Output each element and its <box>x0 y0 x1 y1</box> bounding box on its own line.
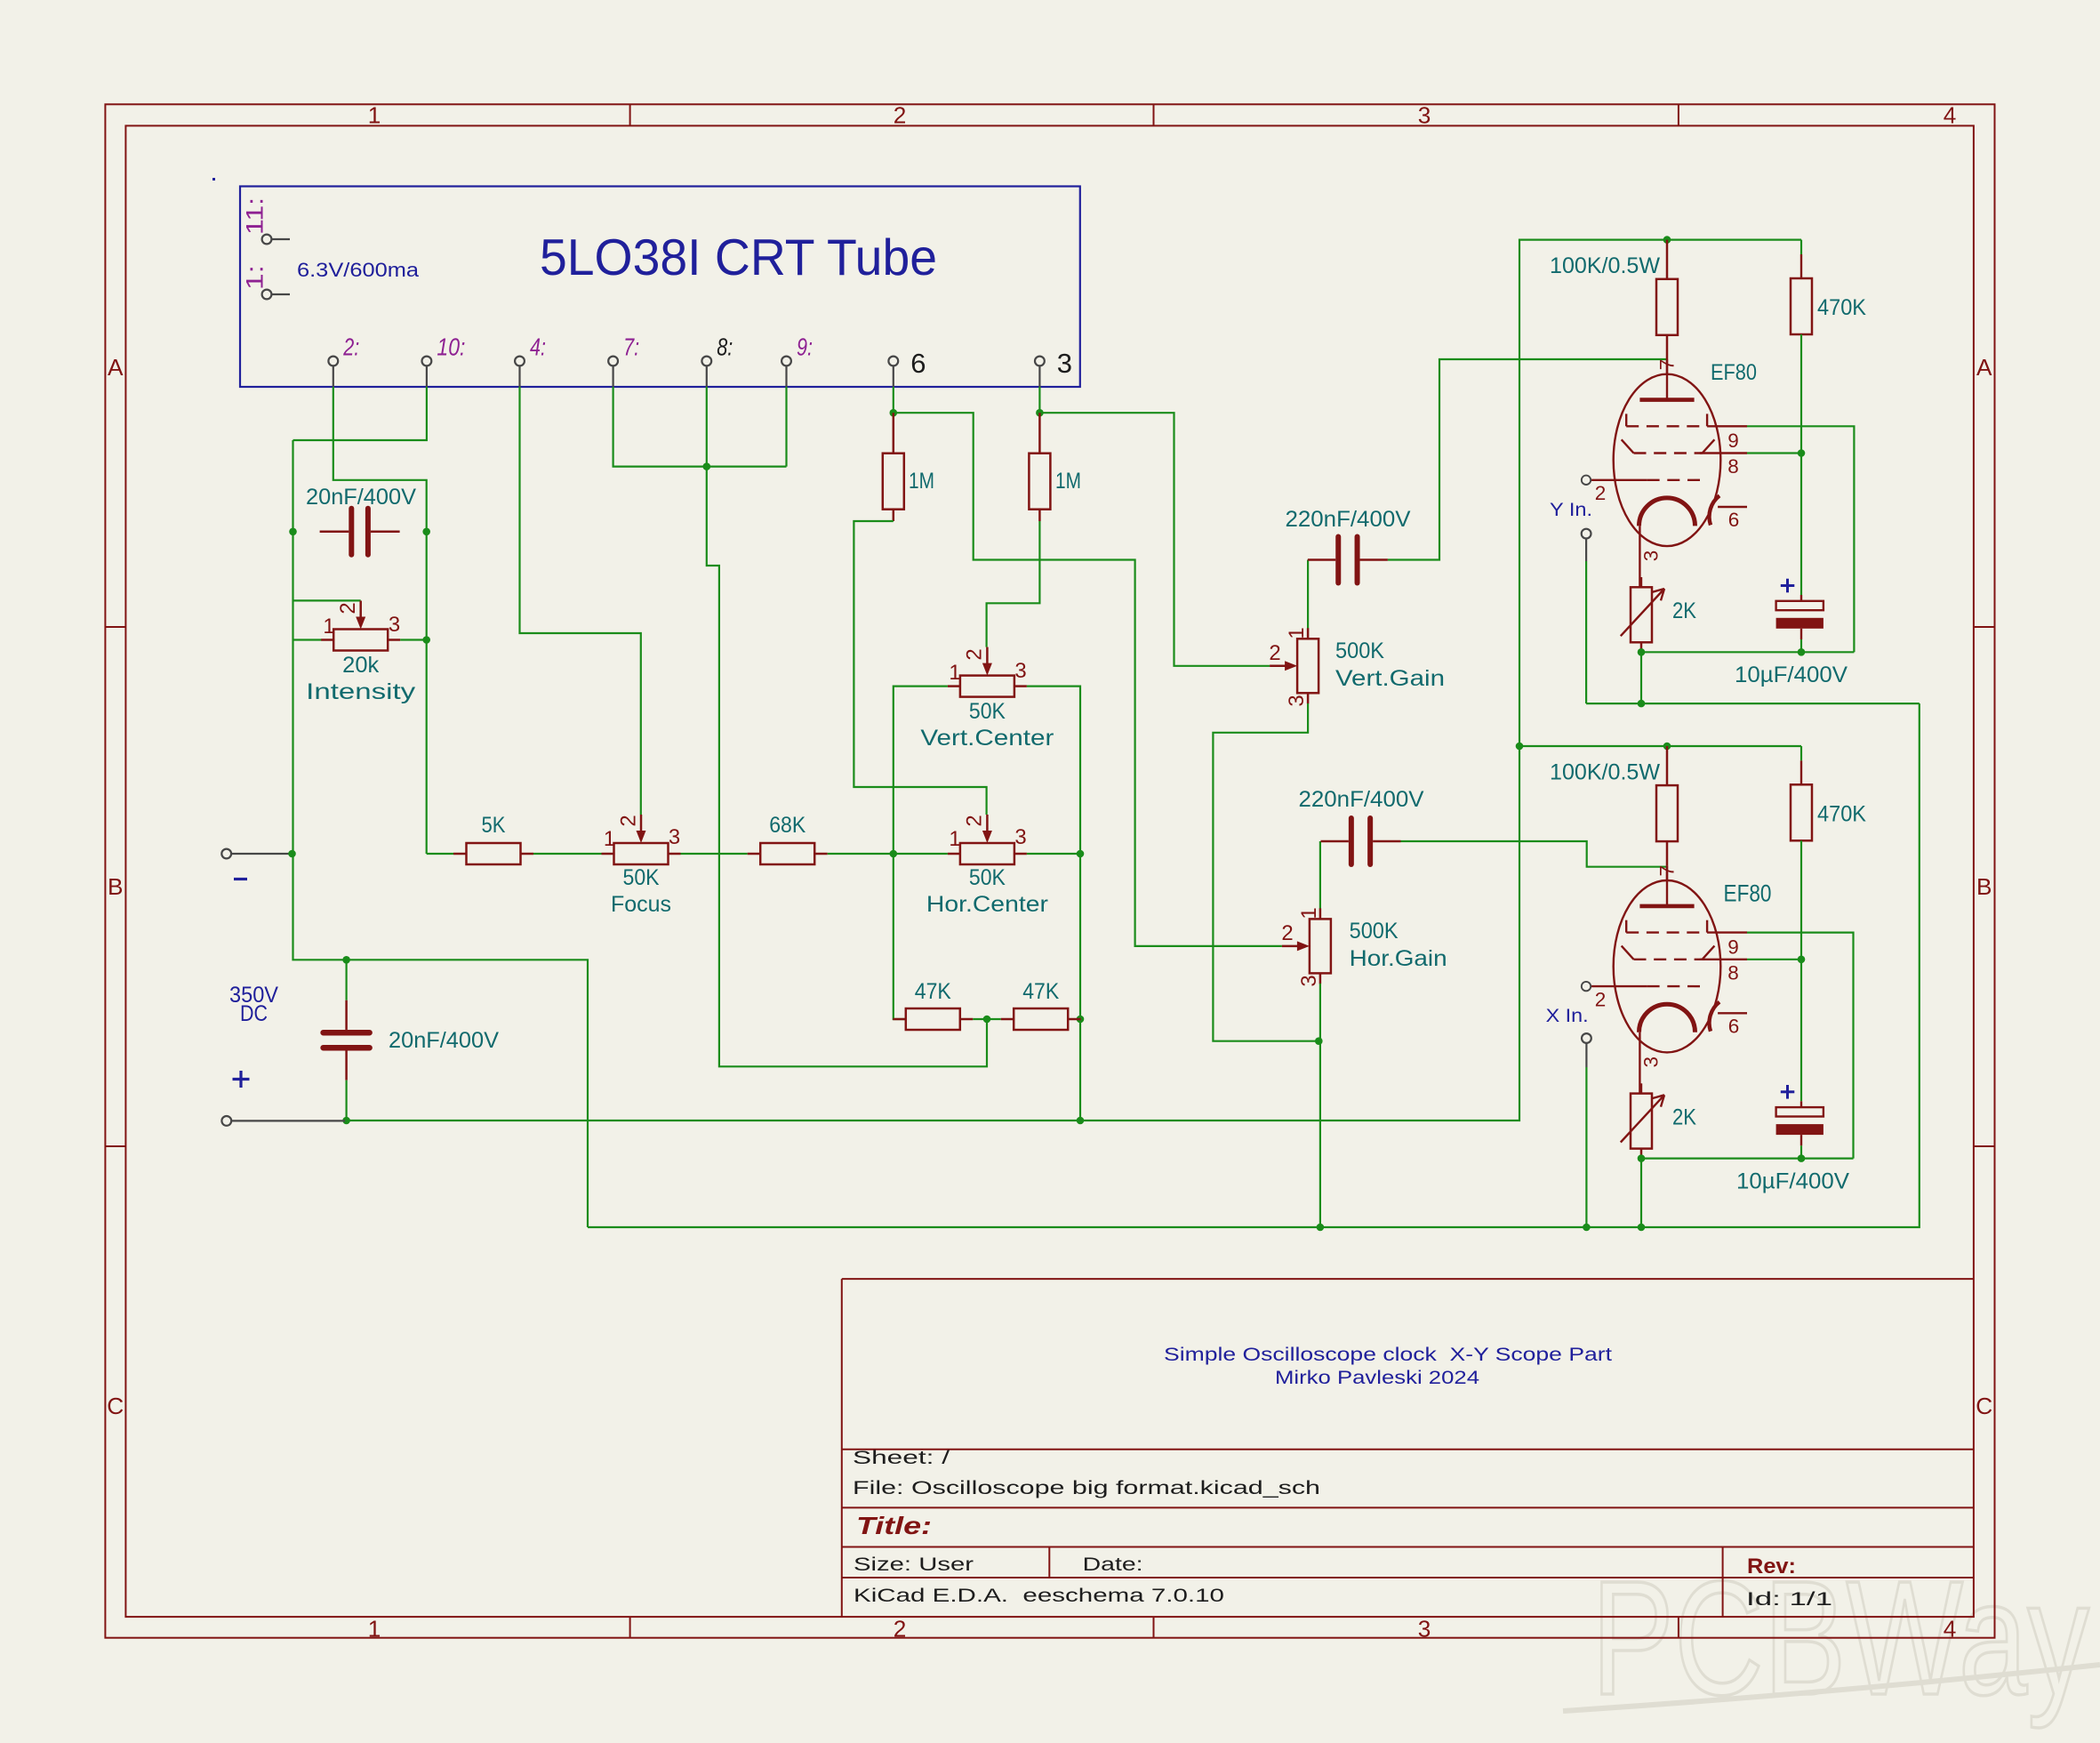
resistor R3 5K <box>453 843 533 864</box>
wire R9 bottom pin7 lead <box>1666 865 1668 880</box>
junction minus node <box>288 850 296 858</box>
V1 pin7 number <box>1656 359 1679 371</box>
svg-text:8:: 8: <box>717 333 733 361</box>
junction Y bias node <box>1638 700 1646 708</box>
RV7 top lead from tube pin3 <box>1640 577 1642 587</box>
border ruler labels 1-4 A-C <box>107 102 1992 1643</box>
svg-text:8: 8 <box>1727 961 1739 984</box>
junction X rail left <box>1516 743 1524 751</box>
RV7 value 2K <box>1672 599 1697 623</box>
svg-text:1: 1 <box>1285 627 1309 639</box>
V1 label EF80 <box>1711 361 1757 385</box>
svg-text:EF80: EF80 <box>1711 361 1757 385</box>
svg-text:Size: User: Size: User <box>854 1554 974 1575</box>
svg-text:KiCad E.D.A. eeschema 7.0.10: KiCad E.D.A. eeschema 7.0.10 <box>854 1586 1224 1606</box>
wire C2 bottom stub <box>346 1080 348 1120</box>
RV6 pin1 number <box>1297 907 1321 919</box>
X In terminal <box>1582 1033 1591 1067</box>
svg-text:1: 1 <box>604 827 615 851</box>
svg-text:2: 2 <box>894 102 907 129</box>
R5 value 47K <box>915 980 952 1004</box>
svg-text:10:: 10: <box>437 333 465 361</box>
date text <box>1083 1554 1143 1575</box>
label minus sign <box>234 878 247 880</box>
label Y In. <box>1550 500 1592 520</box>
capacitor C1 20nF/400V <box>320 509 400 555</box>
wire cap4 left net <box>1319 841 1321 909</box>
RV3 value 50K <box>623 866 661 890</box>
svg-text:50K: 50K <box>969 866 1006 890</box>
svg-text:1: 1 <box>949 661 960 685</box>
wire horgain pin3 net <box>1319 984 1321 1227</box>
wire X cathode rail <box>1641 1157 1854 1159</box>
svg-text:2: 2 <box>894 1616 907 1643</box>
svg-text:20nF/400V: 20nF/400V <box>389 1029 500 1053</box>
svg-text:Sheet: /: Sheet: / <box>853 1448 950 1468</box>
CRT pin 7 name <box>623 333 639 361</box>
svg-text:3: 3 <box>1285 695 1309 706</box>
comment text Mirko Pavleski 2024 <box>1275 1368 1479 1388</box>
svg-text:100K/0.5W: 100K/0.5W <box>1550 254 1661 278</box>
RV1 pin2 number <box>336 602 360 614</box>
wire minus terminal <box>221 849 291 859</box>
svg-text:X In.: X In. <box>1546 1006 1589 1026</box>
svg-text:470K: 470K <box>1817 296 1867 320</box>
RV3 pin1 number <box>604 827 615 851</box>
RV3 pin2 number <box>617 815 641 826</box>
svg-text:7:: 7: <box>623 333 639 361</box>
wire vertcenter pin3 net <box>1027 687 1080 1120</box>
CRT pin 2 <box>328 357 338 387</box>
RV5 value 500K <box>1335 639 1385 663</box>
potentiometer RV3 50K Focus <box>602 815 681 864</box>
C1 value 20nF/400V <box>306 486 417 510</box>
R1 value 1M <box>909 470 934 494</box>
C4 value 220nF/400V <box>1299 788 1425 812</box>
svg-text:Date:: Date: <box>1083 1554 1143 1575</box>
CRT pin 9 <box>781 357 791 387</box>
RV8 value 2K <box>1672 1105 1697 1129</box>
junction 47K middle node <box>983 1016 991 1024</box>
C6 plus sign <box>1781 1085 1795 1099</box>
junction intensity pin3 <box>422 636 430 644</box>
wire R2 bottom to vertcenter pin2 <box>987 521 1040 647</box>
svg-text:DC: DC <box>240 1001 268 1026</box>
capacitor C3 220nF/400V <box>1308 537 1388 583</box>
svg-text:470K: 470K <box>1817 802 1867 826</box>
C3 value 220nF/400V <box>1286 508 1412 532</box>
svg-text:4:: 4: <box>530 333 546 361</box>
junction pin7-8-9 node <box>703 462 711 470</box>
Y In terminal <box>1582 529 1591 561</box>
wire pin6 down <box>893 387 894 413</box>
svg-text:4: 4 <box>1944 1616 1957 1643</box>
V1 pin3 number <box>1640 550 1663 562</box>
PCBWay watermark <box>1563 1546 2100 1729</box>
svg-text:1: 1 <box>368 102 381 129</box>
junction cap1 right <box>422 528 430 536</box>
kicad version text <box>854 1586 1224 1606</box>
wire pin9 down <box>785 387 787 467</box>
wire Y In drop <box>1585 561 1587 703</box>
wire pin6 to horgain pin2 <box>894 413 1282 946</box>
RV2 pin2 number <box>963 648 987 660</box>
R7 value 100K/0.5W <box>1550 254 1661 278</box>
wire V2 pin9 net <box>1747 933 1854 1159</box>
id text <box>1746 1589 1832 1610</box>
svg-text:20nF/400V: 20nF/400V <box>306 486 417 510</box>
wire 5K to focus <box>533 853 602 855</box>
wire R10 to C6 net <box>1800 840 1802 1101</box>
CRT block title 5LO38I CRT Tube <box>540 229 937 286</box>
junction horgain ground node <box>1317 1224 1325 1232</box>
wire Y In bias rail <box>1586 703 1920 704</box>
RV3 pin3 number <box>669 825 680 849</box>
resistor R9 100K/0.5W <box>1656 746 1678 865</box>
CRT pin 11 name <box>242 197 269 235</box>
C2 value 20nF/400V <box>389 1029 500 1053</box>
svg-text:9:: 9: <box>797 333 813 361</box>
svg-text:A: A <box>108 354 124 381</box>
wire plus rail <box>347 240 1801 1120</box>
svg-text:Rev:: Rev: <box>1747 1554 1796 1578</box>
wire C2 top stub <box>346 960 348 1000</box>
wire pin7 down <box>613 387 787 467</box>
svg-text:1:: 1: <box>242 265 269 290</box>
rev label <box>1747 1554 1796 1578</box>
V2 pin8 number <box>1727 961 1739 984</box>
V2 pin6 number <box>1728 1015 1740 1037</box>
RV6 pin3 number <box>1297 975 1321 986</box>
svg-text:3: 3 <box>1418 1616 1431 1643</box>
wire RV8 to ground rail <box>1640 1159 1642 1227</box>
junction horcenter pin3 node <box>1077 850 1085 858</box>
svg-text:Vert.Center: Vert.Center <box>920 727 1054 751</box>
svg-text:Hor.Center: Hor.Center <box>926 893 1048 917</box>
junction X In ground node <box>1583 1224 1591 1232</box>
wire R1 bottom to horcenter pin2 <box>854 521 986 815</box>
wire V2 pin8 net <box>1747 959 1801 960</box>
svg-text:1: 1 <box>368 1616 381 1643</box>
C6 value 10uF/400V <box>1736 1169 1850 1193</box>
junction vertcenter net mid <box>1077 1016 1085 1024</box>
svg-text:3: 3 <box>669 825 680 849</box>
sheet text <box>853 1448 950 1468</box>
capacitor C5 10uF/400V <box>1776 595 1823 652</box>
resistor R10 470K <box>1791 784 1812 840</box>
RV6 label Hor.Gain <box>1350 947 1447 971</box>
RV1 label Intensity <box>306 680 416 704</box>
wire pin10 to left net <box>293 387 427 440</box>
svg-text:3: 3 <box>1014 825 1026 849</box>
svg-text:2K: 2K <box>1672 599 1697 623</box>
file text <box>853 1478 1320 1498</box>
svg-text:10µF/400V: 10µF/400V <box>1735 663 1848 687</box>
RV6 pin2 number <box>1281 921 1293 945</box>
potentiometer RV5 500K Vert.Gain <box>1270 628 1319 703</box>
capacitor C2 20nF/400V <box>324 1000 370 1080</box>
wire vertgain pin3 net <box>1213 703 1319 1041</box>
svg-text:2: 2 <box>963 815 987 826</box>
title label <box>856 1511 932 1539</box>
CRT pin 1 name <box>242 265 269 290</box>
svg-text:Vert.Gain: Vert.Gain <box>1335 667 1445 691</box>
RV2 value 50K <box>969 700 1006 724</box>
svg-text:2: 2 <box>1281 921 1293 945</box>
wire pin3 down <box>1038 387 1040 413</box>
svg-text:6: 6 <box>910 348 926 379</box>
svg-text:3: 3 <box>1297 975 1321 986</box>
potentiometer RV6 500K Hor.Gain <box>1282 908 1331 984</box>
svg-text:3: 3 <box>1640 1056 1663 1068</box>
label 6.3V/600ma <box>297 259 420 281</box>
junction Y rail 100K <box>1663 236 1671 244</box>
R9 value 100K/0.5W <box>1550 760 1661 784</box>
wire focus pin3 to 68K <box>681 853 748 855</box>
CRT block body rectangle <box>240 187 1080 388</box>
svg-text:500K: 500K <box>1335 639 1385 663</box>
R2 value 1M <box>1055 470 1081 494</box>
svg-text:47K: 47K <box>915 980 952 1004</box>
junction vertgain-horgain node <box>1315 1037 1323 1045</box>
svg-text:8: 8 <box>1727 455 1739 478</box>
RV3 label Focus <box>611 893 671 917</box>
svg-text:10µF/400V: 10µF/400V <box>1736 1169 1850 1193</box>
wire R8 to C5 net <box>1800 334 1802 595</box>
label 350V <box>229 983 278 1008</box>
svg-text:11:: 11: <box>242 197 269 235</box>
junction cap1 left <box>289 528 297 536</box>
wire vertcenter pin1 net <box>894 687 948 1019</box>
R6 value 47K <box>1022 980 1060 1004</box>
svg-text:1: 1 <box>1297 907 1321 919</box>
CRT pin 1 <box>262 290 290 300</box>
RV4 label Hor.Center <box>926 893 1048 917</box>
RV6 value 500K <box>1350 920 1399 944</box>
border ruler division ticks <box>105 104 1994 1637</box>
potentiometer RV4 50K Hor.Center <box>948 815 1027 864</box>
svg-text:6: 6 <box>1728 1015 1740 1037</box>
svg-text:5LO38I CRT Tube: 5LO38I CRT Tube <box>540 229 937 286</box>
svg-text:3: 3 <box>1640 550 1663 562</box>
RV4 pin3 number <box>1014 825 1026 849</box>
wire left vertical net <box>293 440 589 1227</box>
label DC <box>240 1001 268 1026</box>
RV1 pin3 number <box>389 613 400 637</box>
svg-text:1M: 1M <box>1055 470 1081 494</box>
svg-text:B: B <box>108 873 123 900</box>
CRT pin 2 name <box>343 333 360 361</box>
resistor R2 1M <box>1029 413 1050 521</box>
junction pin8 470K node X <box>1798 956 1806 964</box>
RV5 label Vert.Gain <box>1335 667 1445 691</box>
wire cap3 right net <box>1388 359 1667 560</box>
V1 pin2 number <box>1595 482 1607 504</box>
junction RV8 ground node <box>1638 1224 1646 1232</box>
label X In. <box>1546 1006 1589 1026</box>
svg-text:500K: 500K <box>1350 920 1399 944</box>
resistor R5 47K <box>893 1008 973 1030</box>
svg-text:Focus: Focus <box>611 893 671 917</box>
wire 47K middle segment <box>973 1018 1000 1020</box>
size text <box>854 1554 974 1575</box>
junction X rail 100K <box>1663 743 1671 751</box>
wire cap3 left net <box>1307 560 1309 629</box>
RV5 pin3 number <box>1285 695 1309 706</box>
resistor R7 100K/0.5W <box>1656 240 1678 359</box>
wire RV7 to bias rail <box>1640 652 1642 703</box>
RV4 value 50K <box>969 866 1006 890</box>
RV4 pin2 number <box>963 815 987 826</box>
wire 5K left <box>427 853 453 855</box>
junction C5 bottom node <box>1798 648 1806 656</box>
wire intensity pin2 branch <box>293 599 361 601</box>
svg-text:C: C <box>107 1393 124 1419</box>
svg-text:Intensity: Intensity <box>306 680 416 704</box>
svg-text:68K: 68K <box>769 814 806 838</box>
svg-text:EF80: EF80 <box>1724 880 1772 907</box>
svg-text:2K: 2K <box>1672 1105 1697 1129</box>
svg-text:220nF/400V: 220nF/400V <box>1299 788 1425 812</box>
svg-text:1: 1 <box>949 827 960 851</box>
C5 value 10uF/400V <box>1735 663 1848 687</box>
svg-text:Id: 1/1: Id: 1/1 <box>1746 1589 1832 1610</box>
junction plus rail pot net <box>1077 1117 1085 1125</box>
page border outer frame <box>105 104 1994 1637</box>
tube V1 EF80 upper <box>1582 359 1747 587</box>
junction pin8 470K node <box>1798 449 1806 457</box>
svg-text:2:: 2: <box>343 333 360 361</box>
svg-text:9: 9 <box>1727 430 1739 452</box>
V2 pin9 number <box>1727 936 1739 958</box>
svg-text:2: 2 <box>963 648 987 660</box>
svg-text:C: C <box>1976 1393 1992 1419</box>
junction pin3 node <box>1036 409 1044 417</box>
RV2 label Vert.Center <box>920 727 1054 751</box>
rheostat RV8 2K <box>1621 1094 1664 1159</box>
svg-text:3: 3 <box>1014 659 1026 683</box>
svg-text:Y In.: Y In. <box>1550 500 1592 520</box>
svg-text:File: Oscilloscope big format.: File: Oscilloscope big format.kicad_sch <box>853 1478 1320 1498</box>
svg-text:2: 2 <box>1595 482 1607 504</box>
svg-text:20k: 20k <box>342 654 380 678</box>
wire X top rail <box>1519 745 1801 747</box>
R8 top lead <box>1800 240 1802 278</box>
page border inner frame <box>125 125 1974 1617</box>
label plus sign <box>233 1071 250 1088</box>
junction 68K-horcenter node <box>890 850 898 858</box>
wire pin8 long net <box>707 387 987 1066</box>
V2 pin2 number <box>1595 988 1607 1010</box>
RV1 value 20k <box>342 654 380 678</box>
V2 label EF80 <box>1724 880 1772 907</box>
wire pin3 to vertgain pin2 <box>1039 413 1270 666</box>
wire pin4 to focus pin2 <box>520 387 641 815</box>
svg-text:50K: 50K <box>623 866 661 890</box>
wire intensity pin3 to 5K net <box>400 639 427 640</box>
wire X In drop <box>1585 1067 1587 1227</box>
svg-text:220nF/400V: 220nF/400V <box>1286 508 1412 532</box>
resistor R6 47K <box>1001 1008 1081 1030</box>
svg-text:1M: 1M <box>909 470 934 494</box>
svg-text:A: A <box>1976 354 1992 381</box>
junction C6 bottom node <box>1798 1154 1806 1162</box>
wire horcenter pin3 net <box>1027 853 1080 855</box>
R3 value 5K <box>482 814 507 838</box>
junction RV8 bottom <box>1638 1154 1646 1162</box>
svg-text:4: 4 <box>1944 102 1957 129</box>
CRT pin 6 <box>888 357 898 387</box>
R10 top lead <box>1800 746 1802 784</box>
potentiometer RV2 50K Vert.Center <box>948 647 1027 697</box>
svg-text:100K/0.5W: 100K/0.5W <box>1550 760 1661 784</box>
resistor R4 68K <box>748 843 828 864</box>
svg-text:2: 2 <box>1595 988 1607 1010</box>
V1 pin9 number <box>1727 430 1739 452</box>
potentiometer RV1 20k Intensity <box>321 601 400 651</box>
rheostat RV7 2K <box>1621 587 1664 652</box>
V1 pin6 number <box>1728 509 1740 531</box>
svg-text:3: 3 <box>1057 348 1072 379</box>
R8 value 470K <box>1817 296 1867 320</box>
junction C2 bottom <box>342 1117 350 1125</box>
svg-text:Simple Oscilloscope clock X-Y: Simple Oscilloscope clock X-Y Scope Part <box>1164 1345 1612 1365</box>
svg-text:3: 3 <box>1418 102 1431 129</box>
R4 value 68K <box>769 814 806 838</box>
resistor R8 470K <box>1791 278 1812 334</box>
CRT pin 4 name <box>530 333 546 361</box>
CRT pin 8 name <box>717 333 733 361</box>
wire V1 pin8 net <box>1747 452 1801 454</box>
CRT pin 7 <box>608 357 618 387</box>
RV8 top lead from tube pin3 <box>1640 1083 1642 1093</box>
CRT pin 10 <box>422 357 432 387</box>
title block lines <box>842 1279 1974 1617</box>
resistor R1 1M <box>883 413 904 521</box>
RV4 pin1 number <box>949 827 960 851</box>
svg-text:2: 2 <box>1269 641 1280 665</box>
CRT pin 8 <box>701 357 711 387</box>
svg-text:2: 2 <box>617 815 641 826</box>
tube V2 EF80 lower <box>1582 865 1747 1093</box>
V2 pin3 number <box>1640 1056 1663 1068</box>
svg-text:Mirko Pavleski 2024: Mirko Pavleski 2024 <box>1275 1368 1479 1388</box>
RV5 pin1 number <box>1285 627 1309 639</box>
svg-text:B: B <box>1976 873 1992 900</box>
RV2 pin1 number <box>949 661 960 685</box>
svg-text:47K: 47K <box>1022 980 1060 1004</box>
svg-text:9: 9 <box>1727 936 1739 958</box>
C5 plus sign <box>1781 579 1795 593</box>
svg-text:2: 2 <box>336 602 360 614</box>
V2 pin7 number <box>1656 865 1679 877</box>
wire V1 pin9 net <box>1747 426 1854 652</box>
junction RV7 bottom <box>1638 648 1646 656</box>
junction C2 top <box>342 956 350 964</box>
svg-text:Title:: Title: <box>856 1511 932 1539</box>
V1 pin8 number <box>1727 455 1739 478</box>
CRT pin 11 <box>262 235 290 245</box>
CRT pin 9 name <box>797 333 813 361</box>
wire cap4 right net <box>1401 841 1668 867</box>
svg-text:Hor.Gain: Hor.Gain <box>1350 947 1447 971</box>
capacitor C4 220nF/400V <box>1321 818 1401 864</box>
R10 value 470K <box>1817 802 1867 826</box>
RV1 pin1 number <box>323 614 334 639</box>
wire ground rail <box>588 703 1920 1227</box>
wire pin2 to cap right net <box>333 387 427 854</box>
svg-text:3: 3 <box>389 613 400 637</box>
